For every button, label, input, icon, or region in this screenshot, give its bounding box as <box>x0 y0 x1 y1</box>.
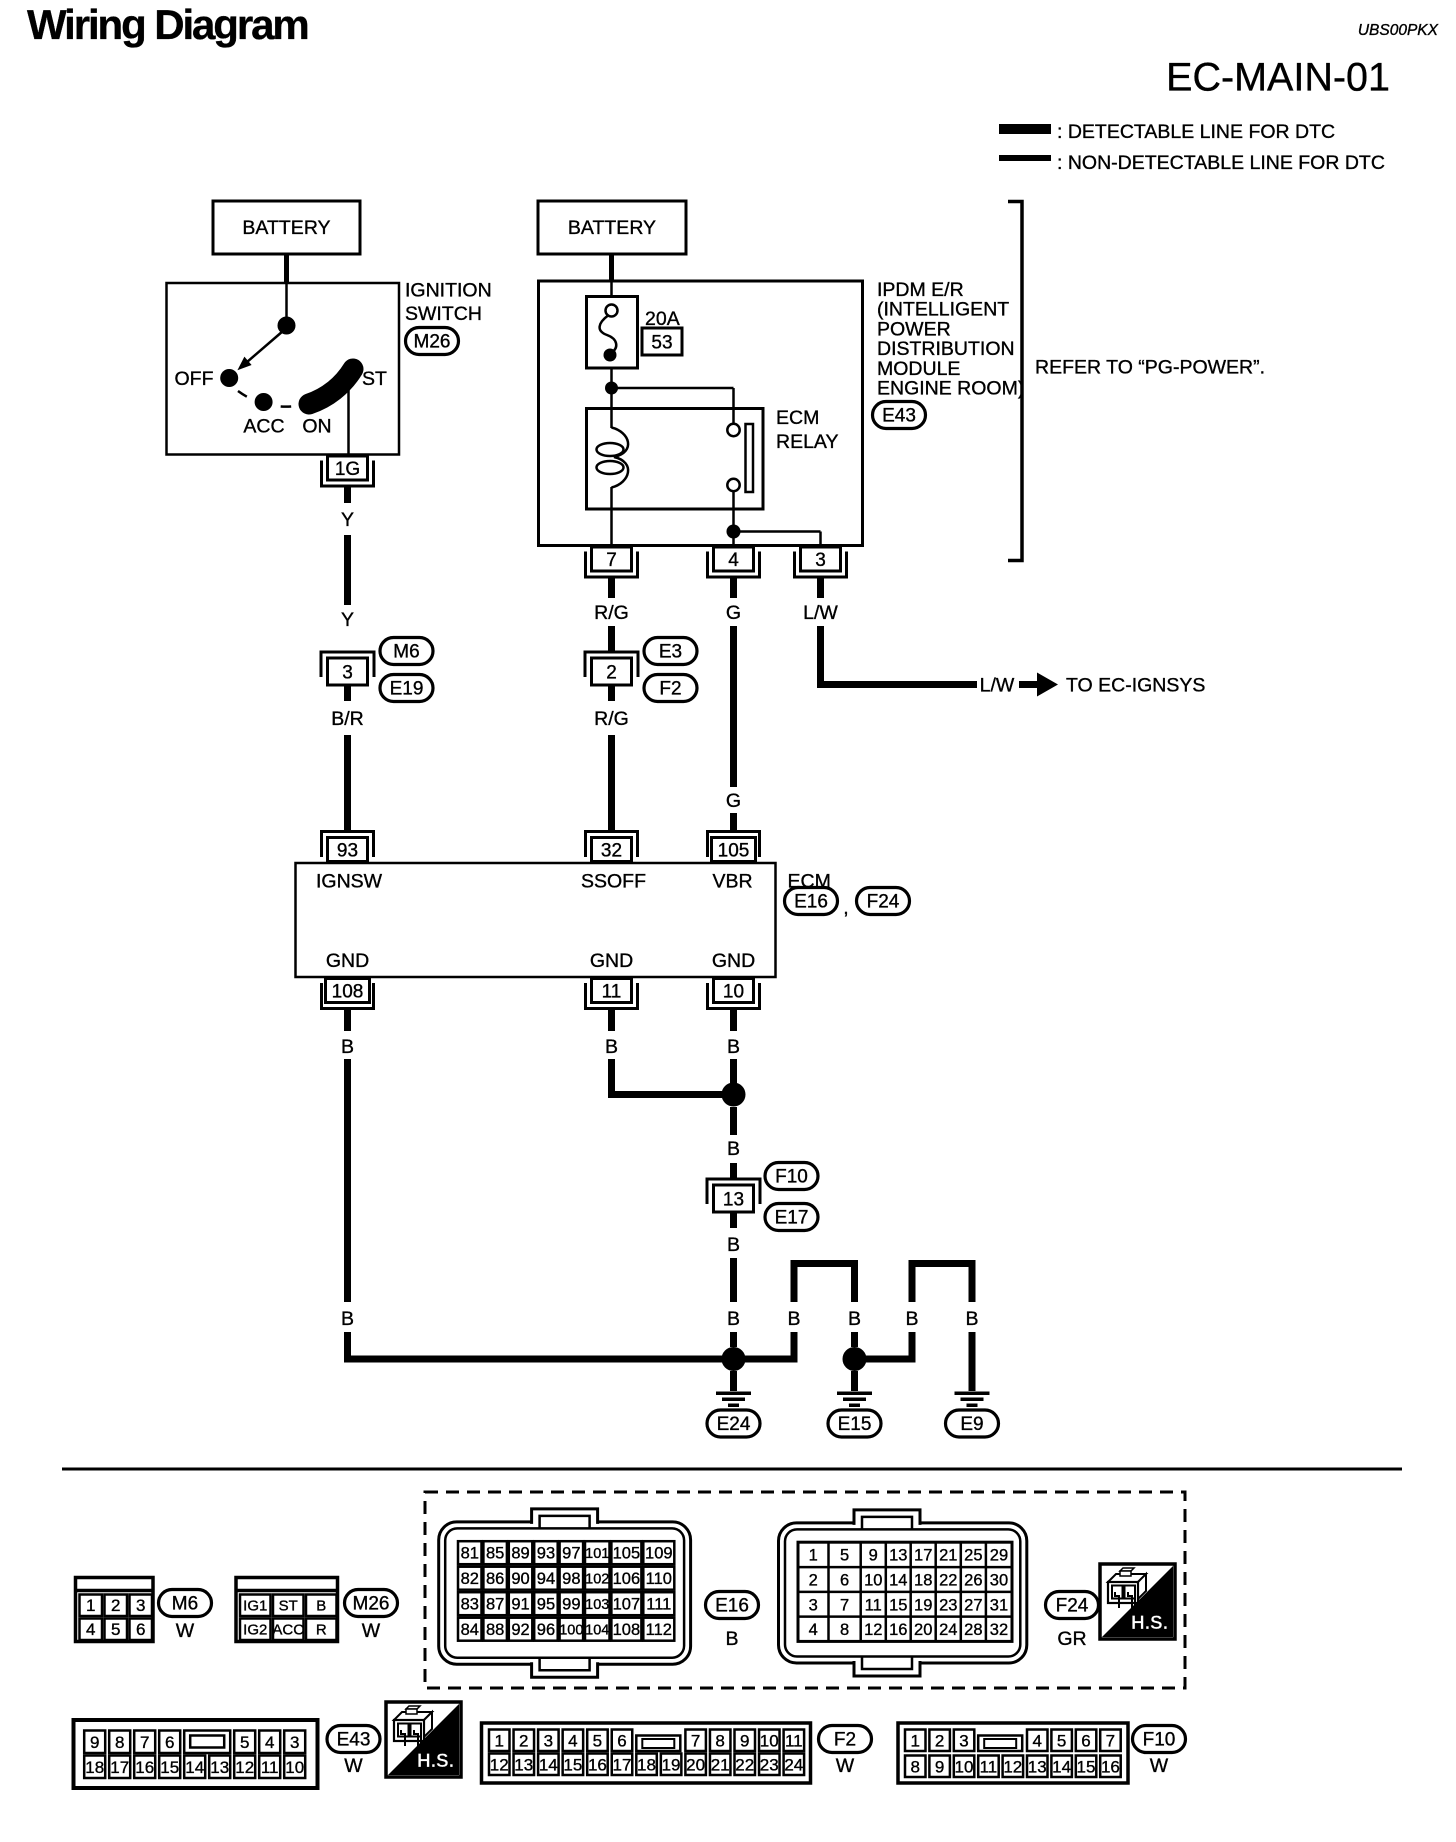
svg-text:IG1: IG1 <box>243 1598 267 1615</box>
wire relay lower contact to pin 4 <box>732 491 735 547</box>
label B col2 <box>605 1036 618 1058</box>
wire battery1 to ignition switch <box>284 254 289 284</box>
svg-text:ST: ST <box>279 1598 298 1615</box>
oval E19 <box>380 675 433 702</box>
label ACC <box>243 416 284 438</box>
svg-text:11: 11 <box>602 981 622 1002</box>
svg-text:83: 83 <box>461 1595 479 1613</box>
connector oval M26 (switch) <box>406 328 459 355</box>
svg-text:ACC: ACC <box>243 416 284 438</box>
svg-text:E17: E17 <box>775 1208 809 1229</box>
bridge2 left leg upper <box>909 1264 916 1303</box>
svg-text:91: 91 <box>511 1595 529 1613</box>
ground symbol E9 <box>955 1392 990 1408</box>
svg-text:10: 10 <box>760 1732 779 1751</box>
svg-text:M26: M26 <box>353 1594 390 1615</box>
svg-text:99: 99 <box>562 1595 580 1613</box>
oval M6 (view) <box>159 1590 212 1617</box>
connector 2 inline (E3/F2) <box>585 652 638 685</box>
bridge2 left leg lower <box>909 1332 916 1363</box>
label TO EC-IGNSYS <box>1066 675 1205 697</box>
svg-text:4: 4 <box>265 1733 274 1752</box>
svg-text:F10: F10 <box>775 1167 808 1188</box>
svg-text:16: 16 <box>889 1621 907 1639</box>
svg-text:W: W <box>362 1620 381 1642</box>
oval F2 (view) <box>819 1726 872 1753</box>
svg-text:E19: E19 <box>390 679 424 700</box>
svg-text:23: 23 <box>939 1596 957 1614</box>
svg-text:16: 16 <box>1101 1758 1120 1777</box>
oval E16 (ECM) <box>785 888 838 915</box>
svg-text:82: 82 <box>461 1570 479 1588</box>
svg-text:3: 3 <box>959 1732 968 1751</box>
battery B2 box <box>538 201 686 254</box>
svg-text:10: 10 <box>864 1572 882 1590</box>
label R/G (upper) <box>594 602 629 624</box>
junction B net <box>722 1083 746 1107</box>
wire 10 down <box>730 1010 737 1032</box>
svg-text:102: 102 <box>585 1571 609 1587</box>
svg-text:E9: E9 <box>960 1414 983 1435</box>
ground stub E24 <box>730 1371 737 1391</box>
connector 3 inline (M6/E19) <box>321 652 374 685</box>
connector oval E43 (IPDM) <box>873 402 926 429</box>
label B col1 lower <box>341 1308 354 1330</box>
switch ACC contact <box>255 393 273 411</box>
label W (M26) <box>362 1620 381 1642</box>
label GR (F24) <box>1057 1628 1086 1650</box>
wire col3 to junction <box>730 1059 737 1083</box>
svg-text:1: 1 <box>910 1732 919 1751</box>
svg-text:89: 89 <box>511 1544 529 1562</box>
oval F10 (view) <box>1133 1726 1186 1753</box>
svg-text:19: 19 <box>914 1596 932 1614</box>
svg-text:13: 13 <box>210 1758 229 1777</box>
svg-text:25: 25 <box>964 1547 982 1565</box>
separator line <box>62 1468 1402 1471</box>
svg-text:87: 87 <box>486 1595 504 1613</box>
svg-text:107: 107 <box>613 1595 641 1613</box>
wire col2 corner to junction <box>608 1059 734 1098</box>
svg-text:20: 20 <box>914 1621 932 1639</box>
code UBS00PKX <box>1358 22 1439 39</box>
svg-text:BATTERY: BATTERY <box>242 217 330 239</box>
svg-text:3: 3 <box>290 1733 299 1752</box>
wire dot1 to leg1 <box>734 1356 795 1363</box>
svg-text:IPDM E/R: IPDM E/R <box>877 279 964 301</box>
svg-text:BATTERY: BATTERY <box>568 217 656 239</box>
oval E16 (view) <box>706 1592 759 1619</box>
svg-text:H.S.: H.S. <box>1131 1613 1168 1634</box>
connector view F2 <box>482 1723 811 1783</box>
svg-text:6: 6 <box>617 1732 626 1751</box>
oval M26 (view) <box>345 1590 398 1617</box>
bridge2 right leg lower <box>969 1332 976 1391</box>
svg-text:81: 81 <box>461 1544 479 1562</box>
svg-text:SSOFF: SSOFF <box>581 871 646 893</box>
svg-text:18: 18 <box>914 1572 932 1590</box>
svg-text:F24: F24 <box>1056 1596 1089 1617</box>
label B above 13 <box>727 1138 740 1160</box>
svg-text:27: 27 <box>964 1596 982 1614</box>
svg-text:L/W: L/W <box>803 602 838 624</box>
fuse 20A box <box>587 297 638 369</box>
sheet id EC-MAIN-01 <box>1166 56 1390 100</box>
svg-text:4: 4 <box>728 550 739 571</box>
switch dashed travel arc <box>238 391 304 407</box>
svg-text:E24: E24 <box>717 1414 751 1435</box>
junction below fuse <box>605 382 618 395</box>
ignition switch box <box>167 283 400 455</box>
svg-text:2: 2 <box>935 1732 944 1751</box>
svg-text:97: 97 <box>562 1544 580 1562</box>
svg-text:109: 109 <box>645 1544 673 1562</box>
svg-text:R/G: R/G <box>594 708 629 730</box>
svg-text:4: 4 <box>86 1620 95 1639</box>
svg-text:85: 85 <box>486 1544 504 1562</box>
label B leg4 <box>965 1308 978 1330</box>
svg-text:92: 92 <box>511 1621 529 1639</box>
svg-text:G: G <box>726 790 741 812</box>
svg-text:11: 11 <box>261 1758 279 1777</box>
bridge1 right leg lower <box>851 1332 858 1347</box>
label B col1 upper <box>341 1036 354 1058</box>
label IGNSW <box>316 871 383 893</box>
svg-text:B: B <box>725 1628 738 1650</box>
oval F2 (inline) <box>644 675 697 702</box>
svg-text:ST: ST <box>362 368 387 390</box>
wire junction to pin 3 <box>734 532 821 547</box>
svg-text:23: 23 <box>760 1756 779 1775</box>
label GND (middle) <box>590 950 633 972</box>
svg-text:B: B <box>605 1036 618 1058</box>
svg-text:R/G: R/G <box>594 602 629 624</box>
svg-text:4: 4 <box>809 1621 818 1639</box>
svg-text:103: 103 <box>585 1597 609 1613</box>
svg-text:3: 3 <box>544 1732 553 1751</box>
label L/W (branch) <box>980 675 1015 697</box>
label G (upper) <box>726 602 741 624</box>
svg-text:M26: M26 <box>414 332 451 353</box>
svg-text:W: W <box>176 1620 195 1642</box>
ECM relay box <box>587 409 764 510</box>
label ST <box>362 368 387 390</box>
oval E17 <box>765 1204 818 1231</box>
svg-text:14: 14 <box>539 1756 558 1775</box>
wire pin7 down <box>608 578 615 598</box>
svg-text:POWER: POWER <box>877 318 951 340</box>
svg-text:53: 53 <box>651 333 672 354</box>
svg-text:110: 110 <box>646 1570 672 1588</box>
label GND (right) <box>712 950 755 972</box>
svg-text:32: 32 <box>990 1621 1008 1639</box>
svg-text:19: 19 <box>662 1756 681 1775</box>
svg-text:18: 18 <box>85 1758 104 1777</box>
switch OFF contact <box>220 369 238 387</box>
svg-text:GND: GND <box>326 950 369 972</box>
svg-text:7: 7 <box>140 1733 149 1752</box>
wire col1 long run <box>344 1059 351 1302</box>
wire junction down <box>730 1107 737 1135</box>
svg-text:E16: E16 <box>794 892 828 913</box>
label IGNITION SWITCH <box>405 280 492 326</box>
wire 11 down <box>608 1010 615 1032</box>
legend: non-detectable line swatch <box>999 155 1051 161</box>
svg-text:13: 13 <box>1028 1758 1047 1777</box>
svg-text:6: 6 <box>1081 1732 1090 1751</box>
svg-text:E15: E15 <box>838 1414 872 1435</box>
oval E43 (view) <box>327 1726 380 1753</box>
refer bracket <box>1008 202 1022 561</box>
label R/G (lower) <box>594 708 629 730</box>
svg-text:95: 95 <box>537 1595 555 1613</box>
label SSOFF <box>581 871 646 893</box>
svg-text:M6: M6 <box>393 642 419 663</box>
svg-text:24: 24 <box>939 1621 957 1639</box>
svg-text:1: 1 <box>86 1596 95 1615</box>
oval E9 <box>946 1410 999 1437</box>
svg-text:86: 86 <box>486 1570 504 1588</box>
junction relay output <box>727 525 741 539</box>
wire pin3 down <box>817 578 824 598</box>
svg-text:OFF: OFF <box>175 368 214 390</box>
svg-text:3: 3 <box>815 550 826 571</box>
switch wiper arrow <box>237 331 283 370</box>
fuse element <box>600 305 618 362</box>
svg-text:5: 5 <box>240 1733 249 1752</box>
svg-text:17: 17 <box>612 1756 631 1775</box>
label B col3 bottom <box>727 1308 740 1330</box>
label B leg1 <box>787 1308 800 1330</box>
svg-text:14: 14 <box>185 1758 204 1777</box>
svg-text:1: 1 <box>809 1547 818 1565</box>
relay contact upper circle <box>727 424 739 436</box>
svg-text:ENGINE ROOM): ENGINE ROOM) <box>877 378 1024 400</box>
svg-text:IG2: IG2 <box>243 1622 267 1639</box>
label ECM RELAY <box>776 407 839 453</box>
wire B/R segment upper <box>344 685 351 701</box>
connector view F10 <box>898 1723 1128 1783</box>
svg-text:IGNITION: IGNITION <box>405 280 492 302</box>
label B leg2 <box>848 1308 861 1330</box>
svg-text:Y: Y <box>341 609 354 631</box>
connector view M26 grid <box>236 1578 338 1642</box>
svg-text:GR: GR <box>1057 1628 1086 1650</box>
legend: detectable line swatch <box>999 124 1051 134</box>
label Y (lower) <box>341 609 354 631</box>
bridge1 left leg upper <box>791 1264 798 1303</box>
pin 105 (ECM) <box>708 832 760 862</box>
svg-text:B: B <box>787 1308 800 1330</box>
svg-text:93: 93 <box>337 840 358 861</box>
svg-text:2: 2 <box>111 1596 120 1615</box>
svg-text:F10: F10 <box>1143 1730 1176 1751</box>
svg-text:F24: F24 <box>867 892 900 913</box>
svg-text:B: B <box>727 1138 740 1160</box>
ground junction E24 <box>722 1347 746 1371</box>
svg-text:108: 108 <box>332 981 364 1002</box>
svg-text:84: 84 <box>461 1621 479 1639</box>
svg-text:22: 22 <box>939 1572 957 1590</box>
svg-text:F2: F2 <box>834 1730 856 1751</box>
wire 108 down <box>344 1010 351 1032</box>
wire 1G down <box>344 487 351 504</box>
svg-text:6: 6 <box>136 1620 145 1639</box>
svg-text:B: B <box>727 1234 740 1256</box>
svg-text:13: 13 <box>889 1547 907 1565</box>
legend: detectable line text <box>1057 121 1335 143</box>
svg-text:15: 15 <box>889 1596 907 1614</box>
svg-text:H.S.: H.S. <box>417 1751 454 1772</box>
svg-text:B: B <box>905 1308 918 1330</box>
svg-text:E43: E43 <box>882 406 916 427</box>
svg-text:15: 15 <box>1077 1758 1096 1777</box>
svg-text:B: B <box>341 1308 354 1330</box>
wire battery2 to IPDM <box>609 254 614 282</box>
wire col3 lower run <box>730 1258 737 1302</box>
svg-text:111: 111 <box>646 1595 671 1613</box>
svg-text:E43: E43 <box>337 1730 371 1751</box>
oval E24 <box>707 1410 760 1437</box>
svg-text:RELAY: RELAY <box>776 431 839 453</box>
label B col3 upper <box>727 1036 740 1058</box>
svg-text:9: 9 <box>935 1758 944 1777</box>
svg-text:B/R: B/R <box>331 708 364 730</box>
oval F24 (view) <box>1046 1592 1099 1619</box>
svg-text:105: 105 <box>613 1544 641 1562</box>
svg-text:Wiring Diagram: Wiring Diagram <box>27 1 308 48</box>
svg-text:GND: GND <box>590 950 633 972</box>
svg-text:106: 106 <box>613 1570 641 1588</box>
svg-text:B: B <box>727 1308 740 1330</box>
label B below 13 <box>727 1234 740 1256</box>
svg-text:15: 15 <box>160 1758 179 1777</box>
legend: non-detectable line text <box>1057 152 1385 174</box>
label B leg3 <box>905 1308 918 1330</box>
svg-text:DISTRIBUTION: DISTRIBUTION <box>877 338 1015 360</box>
pin 108 (ECM gnd) <box>322 979 374 1009</box>
svg-text:EC-MAIN-01: EC-MAIN-01 <box>1166 56 1390 100</box>
svg-text:16: 16 <box>588 1756 607 1775</box>
label REFER TO PG-POWER <box>1035 357 1265 379</box>
svg-text:TO EC-IGNSYS: TO EC-IGNSYS <box>1066 675 1205 697</box>
H.S. icon (E43 row) <box>386 1702 461 1777</box>
svg-text:F2: F2 <box>659 679 681 700</box>
bridge2 top bar <box>909 1260 976 1267</box>
svg-text:W: W <box>344 1755 363 1777</box>
svg-text:32: 32 <box>601 840 622 861</box>
wire below 13 <box>730 1212 737 1228</box>
svg-text:12: 12 <box>864 1621 882 1639</box>
wire relay top to coil <box>610 409 613 429</box>
wire B/R long run <box>344 735 351 831</box>
svg-text:6: 6 <box>840 1572 849 1590</box>
svg-text:15: 15 <box>563 1756 582 1775</box>
oval F10 (inline) <box>765 1163 818 1190</box>
svg-text:MODULE: MODULE <box>877 358 960 380</box>
svg-text:9: 9 <box>869 1547 878 1565</box>
wire ST to 1G <box>347 385 350 454</box>
oval E3 <box>644 638 697 665</box>
svg-text:90: 90 <box>511 1570 529 1588</box>
wire pin4 down <box>730 578 737 598</box>
svg-text:7: 7 <box>691 1732 700 1751</box>
svg-text:10: 10 <box>723 981 744 1002</box>
svg-text:IGNSW: IGNSW <box>316 871 383 893</box>
svg-text:18: 18 <box>637 1756 656 1775</box>
oval E15 <box>828 1410 881 1437</box>
svg-text:2: 2 <box>519 1732 528 1751</box>
connector view M6 grid <box>76 1578 154 1642</box>
svg-text:ON: ON <box>302 416 331 438</box>
wire R/G long run <box>608 735 615 831</box>
wire G long run <box>730 626 737 787</box>
title: Wiring Diagram <box>27 1 308 48</box>
svg-text:93: 93 <box>537 1544 555 1562</box>
svg-text:4: 4 <box>1032 1732 1041 1751</box>
label OFF <box>175 368 214 390</box>
bridge2 right leg upper <box>969 1264 976 1303</box>
svg-text:20: 20 <box>686 1756 705 1775</box>
label W (E43) <box>344 1755 363 1777</box>
svg-text:8: 8 <box>910 1758 919 1777</box>
wire L/W corner <box>817 626 977 688</box>
label ECM <box>788 871 831 893</box>
svg-text:96: 96 <box>537 1621 555 1639</box>
wire fuse to junction <box>610 368 613 409</box>
svg-text:8: 8 <box>840 1621 849 1639</box>
svg-text:SWITCH: SWITCH <box>405 303 482 325</box>
dashed box (ECM connectors) <box>425 1492 1185 1688</box>
arrow to EC-IGNSYS <box>1019 673 1058 697</box>
svg-text:26: 26 <box>964 1572 982 1590</box>
wire dot2 to leg3 <box>855 1356 913 1363</box>
svg-text:B: B <box>316 1598 326 1615</box>
svg-text:12: 12 <box>490 1756 509 1775</box>
svg-text:28: 28 <box>964 1621 982 1639</box>
wire junction to relay contact <box>612 388 734 410</box>
switch pivot contact <box>278 317 296 335</box>
svg-text:88: 88 <box>486 1621 504 1639</box>
wire coil to pin 7 <box>610 487 613 547</box>
wire G to pin 105 <box>730 813 737 831</box>
label B (E16) <box>725 1628 738 1650</box>
svg-text:7: 7 <box>840 1596 849 1614</box>
label ON <box>302 416 331 438</box>
pin 4 (IPDM) <box>708 547 760 577</box>
svg-text:B: B <box>965 1308 978 1330</box>
label Y (upper) <box>341 509 354 531</box>
svg-text:10: 10 <box>285 1758 304 1777</box>
wire col1 to junction <box>344 1332 734 1363</box>
oval M6 <box>380 638 433 665</box>
svg-text:105: 105 <box>718 840 750 861</box>
pin 3 (IPDM) <box>795 547 847 577</box>
svg-text:13: 13 <box>514 1756 533 1775</box>
svg-text:7: 7 <box>606 550 617 571</box>
ECM box <box>296 863 776 977</box>
svg-text:REFER TO “PG-POWER”.: REFER TO “PG-POWER”. <box>1035 357 1265 379</box>
svg-text:GND: GND <box>712 950 755 972</box>
svg-text:29: 29 <box>990 1547 1008 1565</box>
svg-text:3: 3 <box>342 662 353 683</box>
ground symbol E24 <box>716 1392 751 1408</box>
svg-text:31: 31 <box>990 1596 1008 1614</box>
svg-text:B: B <box>848 1308 861 1330</box>
svg-text:E3: E3 <box>659 642 682 663</box>
bridge1 left leg lower <box>791 1332 798 1363</box>
svg-text:B: B <box>727 1036 740 1058</box>
